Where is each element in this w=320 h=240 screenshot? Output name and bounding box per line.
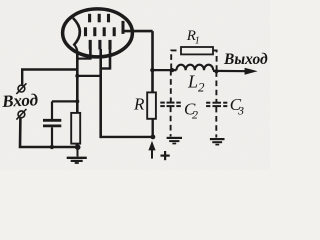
svg-text:1: 1: [195, 36, 200, 47]
svg-text:Выход: Выход: [223, 51, 268, 68]
svg-text:3: 3: [237, 104, 244, 118]
svg-text:2: 2: [198, 80, 205, 95]
svg-text:L: L: [187, 72, 198, 92]
svg-text:R: R: [133, 95, 145, 114]
svg-text:2: 2: [192, 108, 198, 122]
svg-text:Вход: Вход: [1, 90, 39, 111]
